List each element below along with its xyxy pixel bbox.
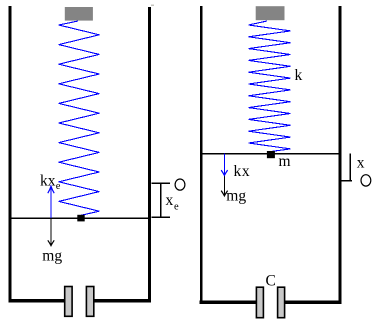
- x_e bracket vertical: [160, 183, 162, 217]
- x bracket vertical (right): [349, 153, 351, 181]
- force arrow mg (down, black) right: [223, 154, 225, 196]
- right box left wall: [200, 6, 203, 304]
- x bracket bottom tick (right): [341, 180, 352, 182]
- left mass: [77, 215, 84, 222]
- faint speck above right wall: [151, 5, 154, 6]
- right mass: [267, 151, 275, 158]
- left box left wall: [9, 6, 12, 302]
- left box right wall: [148, 7, 151, 302]
- label O (left datum): [175, 179, 185, 190]
- right capacitor plate 2: [278, 287, 285, 318]
- svg-text:x: x: [357, 155, 365, 172]
- svg-text:x: x: [166, 192, 174, 209]
- left capacitor plate 2: [86, 287, 93, 317]
- right capacitor plate 1: [256, 287, 263, 318]
- left equilibrium line: [10, 217, 150, 219]
- svg-text:mg: mg: [42, 248, 62, 265]
- svg-text:m: m: [279, 153, 291, 170]
- left capacitor plate 1: [65, 287, 72, 317]
- force arrow kx (down, blue): [223, 154, 225, 175]
- left box bottom wire right segment: [94, 299, 151, 303]
- x_e bracket bottom tick: [152, 216, 171, 218]
- label O (right datum): [361, 175, 371, 186]
- svg-text:k: k: [295, 67, 303, 84]
- force arrow kx_e (up, blue): [50, 187, 52, 219]
- right fixed support block: [256, 6, 285, 20]
- svg-text:mg: mg: [226, 188, 246, 205]
- right spring: [249, 21, 291, 152]
- right box bottom wire right segment: [285, 300, 342, 304]
- svg-text:kx: kx: [40, 173, 56, 190]
- right box bottom wire left segment: [200, 300, 257, 304]
- force arrow mg (down, black) left: [50, 218, 52, 245]
- svg-text:kx: kx: [234, 163, 251, 180]
- svg-text:e: e: [56, 181, 61, 192]
- x_e bracket top tick: [152, 182, 171, 184]
- right box right wall: [338, 6, 341, 304]
- right mass line: [201, 153, 340, 155]
- left fixed support block: [65, 7, 93, 21]
- left spring: [59, 21, 99, 216]
- svg-text:C: C: [266, 273, 276, 290]
- svg-text:e: e: [174, 202, 179, 213]
- left box bottom wire left segment: [9, 299, 65, 303]
